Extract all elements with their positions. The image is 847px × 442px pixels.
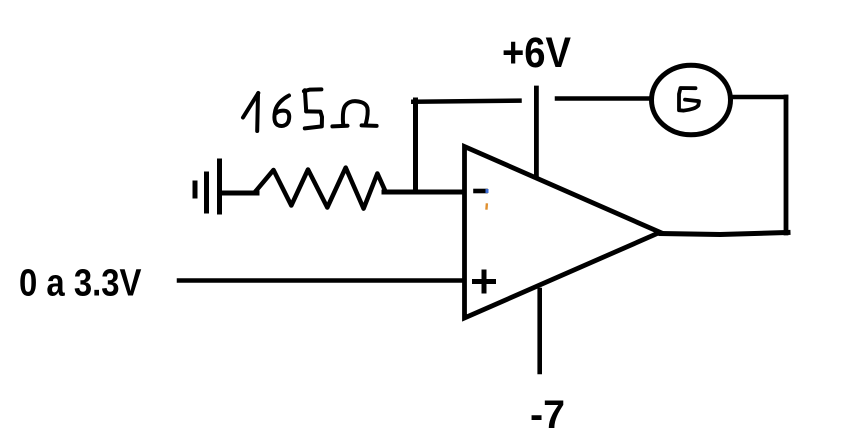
svg-text:0 a 3.3V: 0 a 3.3V [19, 263, 142, 305]
wire meter to right corner [732, 95, 786, 100]
wire +6V supply vertical [534, 88, 539, 176]
op-amp U1 triangle [465, 147, 661, 319]
galvanometer letter G (handwritten) [679, 88, 699, 111]
wire feedback left vertical [413, 100, 418, 192]
op-amp non-inverting input label + [475, 272, 494, 291]
galvanometer G meter circle [652, 65, 731, 135]
wire top left segment [413, 101, 519, 102]
wire -7 supply vertical [537, 290, 542, 372]
wire top right segment to meter [557, 96, 649, 101]
wire non-inverting input [179, 278, 462, 283]
op-amp inverting input label - [476, 189, 486, 194]
blue tip artifact on minus [486, 189, 489, 193]
orange tick artifact [485, 205, 488, 209]
svg-text:-7: -7 [530, 393, 565, 437]
wire right vertical [784, 97, 789, 233]
battery B1 (input source bars) [195, 161, 220, 212]
wire op-amp output [661, 233, 788, 235]
wire battery to resistor [222, 191, 257, 196]
resistor R1 zigzag [255, 168, 386, 209]
label 165 ohm (handwritten) [243, 89, 377, 131]
wire resistor to op-amp inverting input [384, 190, 462, 195]
svg-text:+6V: +6V [502, 30, 572, 77]
